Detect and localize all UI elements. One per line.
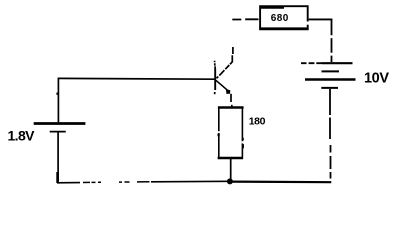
wire: bottom rail middle solid (151, 180, 230, 183)
resistor R1 bottom edge thick (259, 27, 308, 30)
resistor R2 right edge blob lower (242, 138, 244, 141)
transistor Q1 base bar top dashes (214, 61, 217, 69)
resistor R2 right edge gap upper (242, 141, 244, 143)
transistor Q1 emitter diagonal (216, 80, 227, 90)
transistor Q1 collector diagonal (dashed) (217, 61, 233, 78)
resistor R1 scan noise under top edge (261, 7, 284, 9)
wire: bottom rail left solid (57, 182, 80, 184)
wire: bottom rail right thick (230, 181, 331, 184)
battery V2 plate 1 long (+) (322, 62, 353, 64)
battery V1 short plate (-) (50, 131, 66, 133)
resistor R1 right edge gap (306, 22, 309, 25)
resistor R1 body (260, 6, 308, 29)
svg-text:10V: 10V (364, 71, 389, 87)
battery V2 plate 2 short (322, 70, 340, 72)
junction dot (227, 178, 233, 184)
resistor R2 body (219, 108, 243, 159)
wire: battery V1 bottom lead (57, 133, 59, 182)
resistor R2 top edge thick (218, 106, 244, 109)
wire: vertical down to V2 (dashed) (331, 19, 333, 62)
svg-text:180: 180 (249, 116, 266, 128)
resistor R2 bottom edge thick (218, 157, 243, 160)
wire: nub on V1 top lead (56, 93, 58, 95)
wire: R2 bottom to junction (230, 159, 232, 179)
svg-text:1.8V: 1.8V (8, 128, 36, 144)
wire: Q1 emitter to R2 (230, 94, 232, 102)
battery V2 plate 3 long (305, 78, 356, 81)
wire: emitter tick at R2 top (231, 105, 233, 107)
wire: dashed collector wire to R1 (232, 18, 258, 20)
wire: R1 to V2 top (309, 18, 333, 20)
resistor R2 right edge tick blob (242, 144, 244, 148)
battery V2 plate 4 short (-) (321, 87, 338, 89)
transistor Q1 emitter arrowhead (226, 89, 231, 94)
battery V2 plate 1 dashes (301, 62, 322, 64)
svg-text:680: 680 (271, 13, 289, 24)
resistor R2 left edge gap (218, 131, 220, 133)
wire: Q1 collector vertical stub (231, 47, 234, 62)
battery V1 long plate (+) (34, 122, 86, 125)
transistor Q1 base bar lower tick (214, 92, 216, 94)
wire: bottom-left corner thick blob (56, 172, 59, 183)
wire: V2 bottom dashed lead (329, 89, 332, 179)
transistor Q1 base bar (214, 69, 216, 91)
resistor R2 left edge tick blob (218, 134, 220, 137)
wire: base wire from V1 to Q1 (58, 77, 215, 80)
wire: battery V1 top lead (57, 78, 59, 122)
wire: bottom rail dashes (83, 181, 150, 184)
